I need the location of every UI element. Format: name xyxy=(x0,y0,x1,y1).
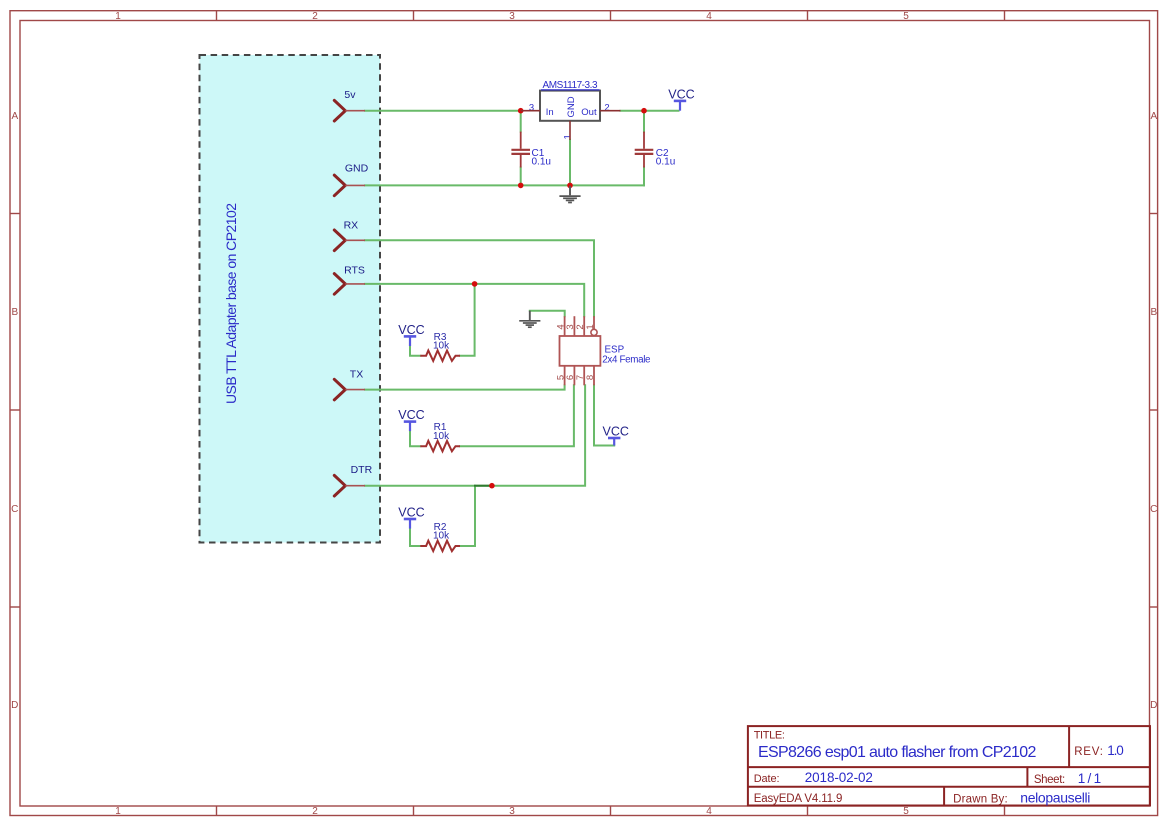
svg-text:B: B xyxy=(11,307,18,318)
svg-text:10k: 10k xyxy=(433,531,450,542)
svg-text:1: 1 xyxy=(115,806,121,817)
svg-text:nelopauselli: nelopauselli xyxy=(1020,790,1090,806)
svg-text:1: 1 xyxy=(585,324,596,329)
svg-text:A: A xyxy=(1150,111,1157,122)
svg-text:B: B xyxy=(1150,307,1157,318)
svg-text:4: 4 xyxy=(706,806,712,817)
svg-text:8: 8 xyxy=(585,375,596,380)
svg-text:1/1: 1/1 xyxy=(1078,771,1101,786)
svg-text:2: 2 xyxy=(604,103,609,114)
svg-text:C: C xyxy=(11,504,18,515)
svg-text:VCC: VCC xyxy=(398,408,424,422)
svg-text:0.1u: 0.1u xyxy=(656,156,675,167)
svg-text:VCC: VCC xyxy=(668,88,694,102)
svg-text:DTR: DTR xyxy=(351,464,373,476)
svg-text:10k: 10k xyxy=(433,431,450,442)
svg-text:ESP8266 esp01 auto flasher fro: ESP8266 esp01 auto flasher from CP2102 xyxy=(758,744,1036,761)
svg-text:1: 1 xyxy=(562,134,573,139)
svg-text:2x4 Female: 2x4 Female xyxy=(602,354,651,365)
svg-text:D: D xyxy=(1150,700,1157,711)
svg-text:Sheet:: Sheet: xyxy=(1034,774,1065,786)
svg-text:GND: GND xyxy=(345,163,369,175)
svg-text:A: A xyxy=(11,111,18,122)
svg-text:AMS1117-3.3: AMS1117-3.3 xyxy=(543,80,598,91)
svg-text:TITLE:: TITLE: xyxy=(754,730,785,742)
svg-text:Out: Out xyxy=(581,107,597,118)
svg-text:Drawn By:: Drawn By: xyxy=(953,794,1008,806)
svg-text:RTS: RTS xyxy=(344,264,365,276)
svg-text:2018-02-02: 2018-02-02 xyxy=(805,770,873,785)
svg-text:1.0: 1.0 xyxy=(1107,743,1124,758)
svg-text:5: 5 xyxy=(903,806,909,817)
svg-text:5: 5 xyxy=(903,11,909,22)
svg-text:VCC: VCC xyxy=(602,425,628,439)
svg-text:In: In xyxy=(546,107,554,118)
svg-text:2: 2 xyxy=(312,806,318,817)
svg-text:Date:: Date: xyxy=(754,773,780,785)
svg-text:1: 1 xyxy=(115,11,121,22)
svg-text:3: 3 xyxy=(509,806,515,817)
svg-text:D: D xyxy=(11,700,18,711)
svg-text:USB TTL Adapter base on CP2102: USB TTL Adapter base on CP2102 xyxy=(223,203,239,404)
svg-text:REV:: REV: xyxy=(1074,746,1103,758)
svg-text:2: 2 xyxy=(312,11,318,22)
svg-text:VCC: VCC xyxy=(398,323,424,337)
svg-text:VCC: VCC xyxy=(398,506,424,520)
svg-text:5v: 5v xyxy=(344,89,356,101)
svg-text:C: C xyxy=(1150,504,1157,515)
svg-text:GND: GND xyxy=(566,96,577,117)
svg-text:0.1u: 0.1u xyxy=(532,156,551,167)
svg-text:EasyEDA V4.11.9: EasyEDA V4.11.9 xyxy=(754,793,843,805)
svg-text:4: 4 xyxy=(706,11,712,22)
svg-text:10k: 10k xyxy=(433,341,450,352)
svg-text:RX: RX xyxy=(344,220,359,232)
svg-text:3: 3 xyxy=(509,11,515,22)
svg-text:3: 3 xyxy=(529,103,534,114)
svg-text:TX: TX xyxy=(350,369,363,381)
